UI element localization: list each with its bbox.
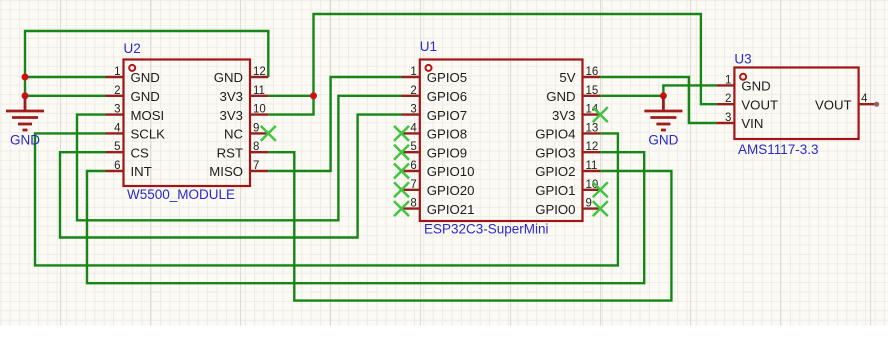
svg-text:SCLK: SCLK	[131, 127, 166, 142]
svg-text:GPIO21: GPIO21	[427, 202, 475, 217]
U1 pin 10 GPIO1	[583, 189, 601, 191]
svg-text:VIN: VIN	[741, 116, 763, 131]
junction GND at U2 pin1 wire	[22, 74, 29, 81]
ground symbol GND left	[6, 96, 44, 130]
wire GND junction up to U3 pin1	[663, 85, 716, 95]
svg-text:5: 5	[410, 141, 416, 153]
svg-text:GPIO9: GPIO9	[427, 145, 467, 160]
svg-text:GND: GND	[648, 133, 678, 148]
IC U2 W5500_MODULE	[106, 41, 269, 202]
U1 pin-1 marker	[426, 65, 432, 71]
svg-text:6: 6	[114, 160, 120, 172]
svg-text:7: 7	[253, 160, 259, 172]
svg-text:U2: U2	[124, 41, 141, 56]
wire U2 pin10 3V3 up to junction	[268, 96, 313, 115]
svg-text:11: 11	[586, 160, 598, 172]
U2 pin 8 RST	[250, 151, 268, 153]
svg-text:GPIO0: GPIO0	[535, 202, 575, 217]
svg-text:GND: GND	[546, 89, 575, 104]
U2 pin 9 NC	[250, 132, 268, 134]
svg-text:U3: U3	[734, 52, 751, 67]
U3 pin-1 marker	[740, 74, 746, 80]
U2 pin 3 MOSI	[106, 113, 124, 115]
svg-text:3V3: 3V3	[220, 108, 243, 123]
U2 pin 2 GND	[106, 95, 124, 97]
svg-text:3: 3	[410, 104, 416, 116]
svg-text:GPIO20: GPIO20	[427, 183, 475, 198]
wire U2 pin1 GND to junction	[25, 76, 106, 78]
svg-text:6: 6	[410, 160, 416, 172]
U1 pin 13 GPIO4	[583, 132, 601, 134]
no-connect flag U1 pin 14	[593, 107, 608, 122]
svg-text:GPIO10: GPIO10	[427, 164, 475, 179]
U1 pin 9 GPIO0	[583, 207, 601, 209]
U1 pin 4 GPIO8	[402, 132, 420, 134]
svg-text:GPIO8: GPIO8	[427, 127, 467, 142]
svg-text:4: 4	[861, 93, 868, 105]
svg-text:3: 3	[114, 104, 120, 116]
svg-text:7: 7	[410, 179, 416, 191]
svg-text:GND: GND	[10, 133, 40, 148]
U1 pin 11 GPIO2	[583, 170, 601, 172]
ground symbol GND right	[644, 96, 682, 130]
no-connect flag U1 pin 5	[394, 145, 409, 160]
svg-text:W5500_MODULE: W5500_MODULE	[127, 187, 235, 202]
wire U2 pin11 3V3 to junction	[268, 95, 313, 97]
U3 pin 1 GND	[716, 84, 734, 86]
svg-text:11: 11	[253, 85, 265, 97]
svg-text:12: 12	[253, 66, 266, 78]
svg-text:GPIO7: GPIO7	[427, 108, 467, 123]
svg-text:2: 2	[725, 93, 731, 105]
svg-text:GPIO5: GPIO5	[427, 70, 467, 85]
svg-text:ESP32C3-SuperMini: ESP32C3-SuperMini	[424, 222, 549, 237]
wire GND loop up and over to U2 pin12	[25, 31, 268, 96]
U3 pin 3 VIN	[716, 122, 734, 124]
no-connect flag U1 pin 9	[593, 201, 608, 216]
svg-text:GPIO4: GPIO4	[535, 127, 575, 142]
U2 pin 5 CS	[106, 151, 124, 153]
svg-text:1: 1	[725, 74, 731, 86]
svg-text:VOUT: VOUT	[741, 97, 778, 112]
svg-text:13: 13	[586, 122, 599, 134]
U2 pin 4 SCLK	[106, 132, 124, 134]
wire U2 pin2 GND to junction	[25, 95, 106, 97]
U1 pin 1 GPIO5	[402, 76, 420, 78]
wire CS net U2 pin5 to U1 GPIO7	[60, 115, 402, 238]
U2 pin 11 3V3	[250, 95, 268, 97]
no-connect flag U2 pin9 NC	[261, 126, 276, 141]
U2 pin 10 3V3	[250, 113, 268, 115]
svg-text:2: 2	[114, 85, 120, 97]
svg-text:GPIO6: GPIO6	[427, 89, 467, 104]
junction 3V3 at U2 pin11 wire	[310, 92, 317, 99]
U1 pin 2 GPIO6	[402, 95, 420, 97]
svg-text:2: 2	[410, 85, 416, 97]
wire MOSI net U2 pin3 to U1 GPIO6	[77, 96, 402, 221]
wire GND stem right	[662, 96, 664, 98]
svg-text:GND: GND	[131, 89, 160, 104]
U1 pin 6 GPIO10	[402, 170, 420, 172]
U2 body outline	[124, 60, 251, 187]
U3 pin 4 open end marker	[874, 102, 879, 107]
svg-text:1: 1	[114, 66, 120, 78]
wire MISO net U2 pin7 to U1 GPIO5	[268, 77, 401, 171]
no-connect flag U1 pin 4	[394, 126, 409, 141]
svg-text:GPIO3: GPIO3	[535, 145, 575, 160]
no-connect flag U1 pin 7	[394, 182, 409, 197]
svg-text:U1: U1	[420, 39, 437, 54]
U2 pin-1 marker	[129, 65, 135, 71]
svg-text:4: 4	[114, 122, 121, 134]
U3 pin 4 VOUT	[859, 103, 877, 105]
no-connect flag U1 pin 8	[394, 201, 409, 216]
svg-text:3V3: 3V3	[552, 108, 575, 123]
U1 pin 14 3V3	[583, 113, 601, 115]
svg-text:GND: GND	[741, 79, 770, 94]
U1 body outline	[420, 60, 583, 222]
svg-text:9: 9	[586, 198, 592, 210]
svg-text:8: 8	[253, 141, 259, 153]
wire GND stem left	[24, 96, 26, 98]
svg-text:GPIO1: GPIO1	[535, 183, 575, 198]
wire SCLK net U2 pin4 to U1 GPIO4	[35, 133, 618, 265]
svg-text:VOUT: VOUT	[815, 97, 852, 112]
U1 pin 12 GPIO3	[583, 151, 601, 153]
U2 pin 1 GND	[106, 76, 124, 78]
svg-text:GPIO2: GPIO2	[535, 164, 575, 179]
svg-text:RST: RST	[217, 145, 243, 160]
svg-text:1: 1	[410, 66, 416, 78]
U1 pin 5 GPIO9	[402, 151, 420, 153]
wire RST net U2 pin8 to U1 GPIO2	[268, 152, 671, 300]
no-connect flag U1 pin 10	[593, 182, 608, 197]
IC U1 ESP32C3-SuperMini	[402, 39, 601, 237]
svg-text:8: 8	[410, 198, 416, 210]
svg-text:5: 5	[114, 141, 120, 153]
wire 3V3 net to U3 VOUT pin2	[314, 14, 717, 104]
svg-text:3V3: 3V3	[220, 89, 243, 104]
svg-text:9: 9	[253, 122, 259, 134]
svg-text:GND: GND	[131, 70, 160, 85]
svg-text:CS: CS	[131, 145, 150, 160]
svg-text:GND: GND	[214, 70, 243, 85]
U2 pin 6 INT	[106, 170, 124, 172]
svg-text:MISO: MISO	[209, 164, 243, 179]
U1 pin 16 5V	[583, 76, 601, 78]
wire U1 pin15 GND to junction	[600, 95, 663, 97]
U2 pin 7 MISO	[250, 170, 268, 172]
svg-text:10: 10	[253, 104, 266, 116]
svg-text:5V: 5V	[559, 70, 575, 85]
svg-text:16: 16	[586, 66, 599, 78]
wire INT net U2 pin6 to U1 GPIO3	[87, 152, 644, 283]
svg-text:4: 4	[410, 122, 417, 134]
svg-text:INT: INT	[131, 164, 152, 179]
IC U3 AMS1117-3.3	[716, 52, 879, 158]
svg-text:NC: NC	[224, 127, 244, 142]
svg-text:MOSI: MOSI	[131, 108, 165, 123]
svg-text:15: 15	[586, 85, 599, 97]
svg-text:AMS1117-3.3: AMS1117-3.3	[738, 142, 819, 157]
U1 pin 7 GPIO20	[402, 189, 420, 191]
junction GND at U2 pin2 wire	[22, 92, 29, 99]
U1 pin 15 GND	[583, 95, 601, 97]
wire 5V net U1 pin16 to U3 VIN pin3	[600, 77, 716, 123]
no-connect flag U1 pin 6	[394, 164, 409, 179]
junction GND at U1 pin15 wire	[660, 92, 667, 99]
U2 pin 12 GND	[250, 76, 268, 78]
U3 pin 2 VOUT	[716, 103, 734, 105]
svg-text:3: 3	[725, 112, 731, 124]
U1 pin 3 GPIO7	[402, 113, 420, 115]
svg-text:12: 12	[586, 141, 599, 153]
U3 body outline	[734, 68, 858, 140]
U1 pin 8 GPIO21	[402, 207, 420, 209]
